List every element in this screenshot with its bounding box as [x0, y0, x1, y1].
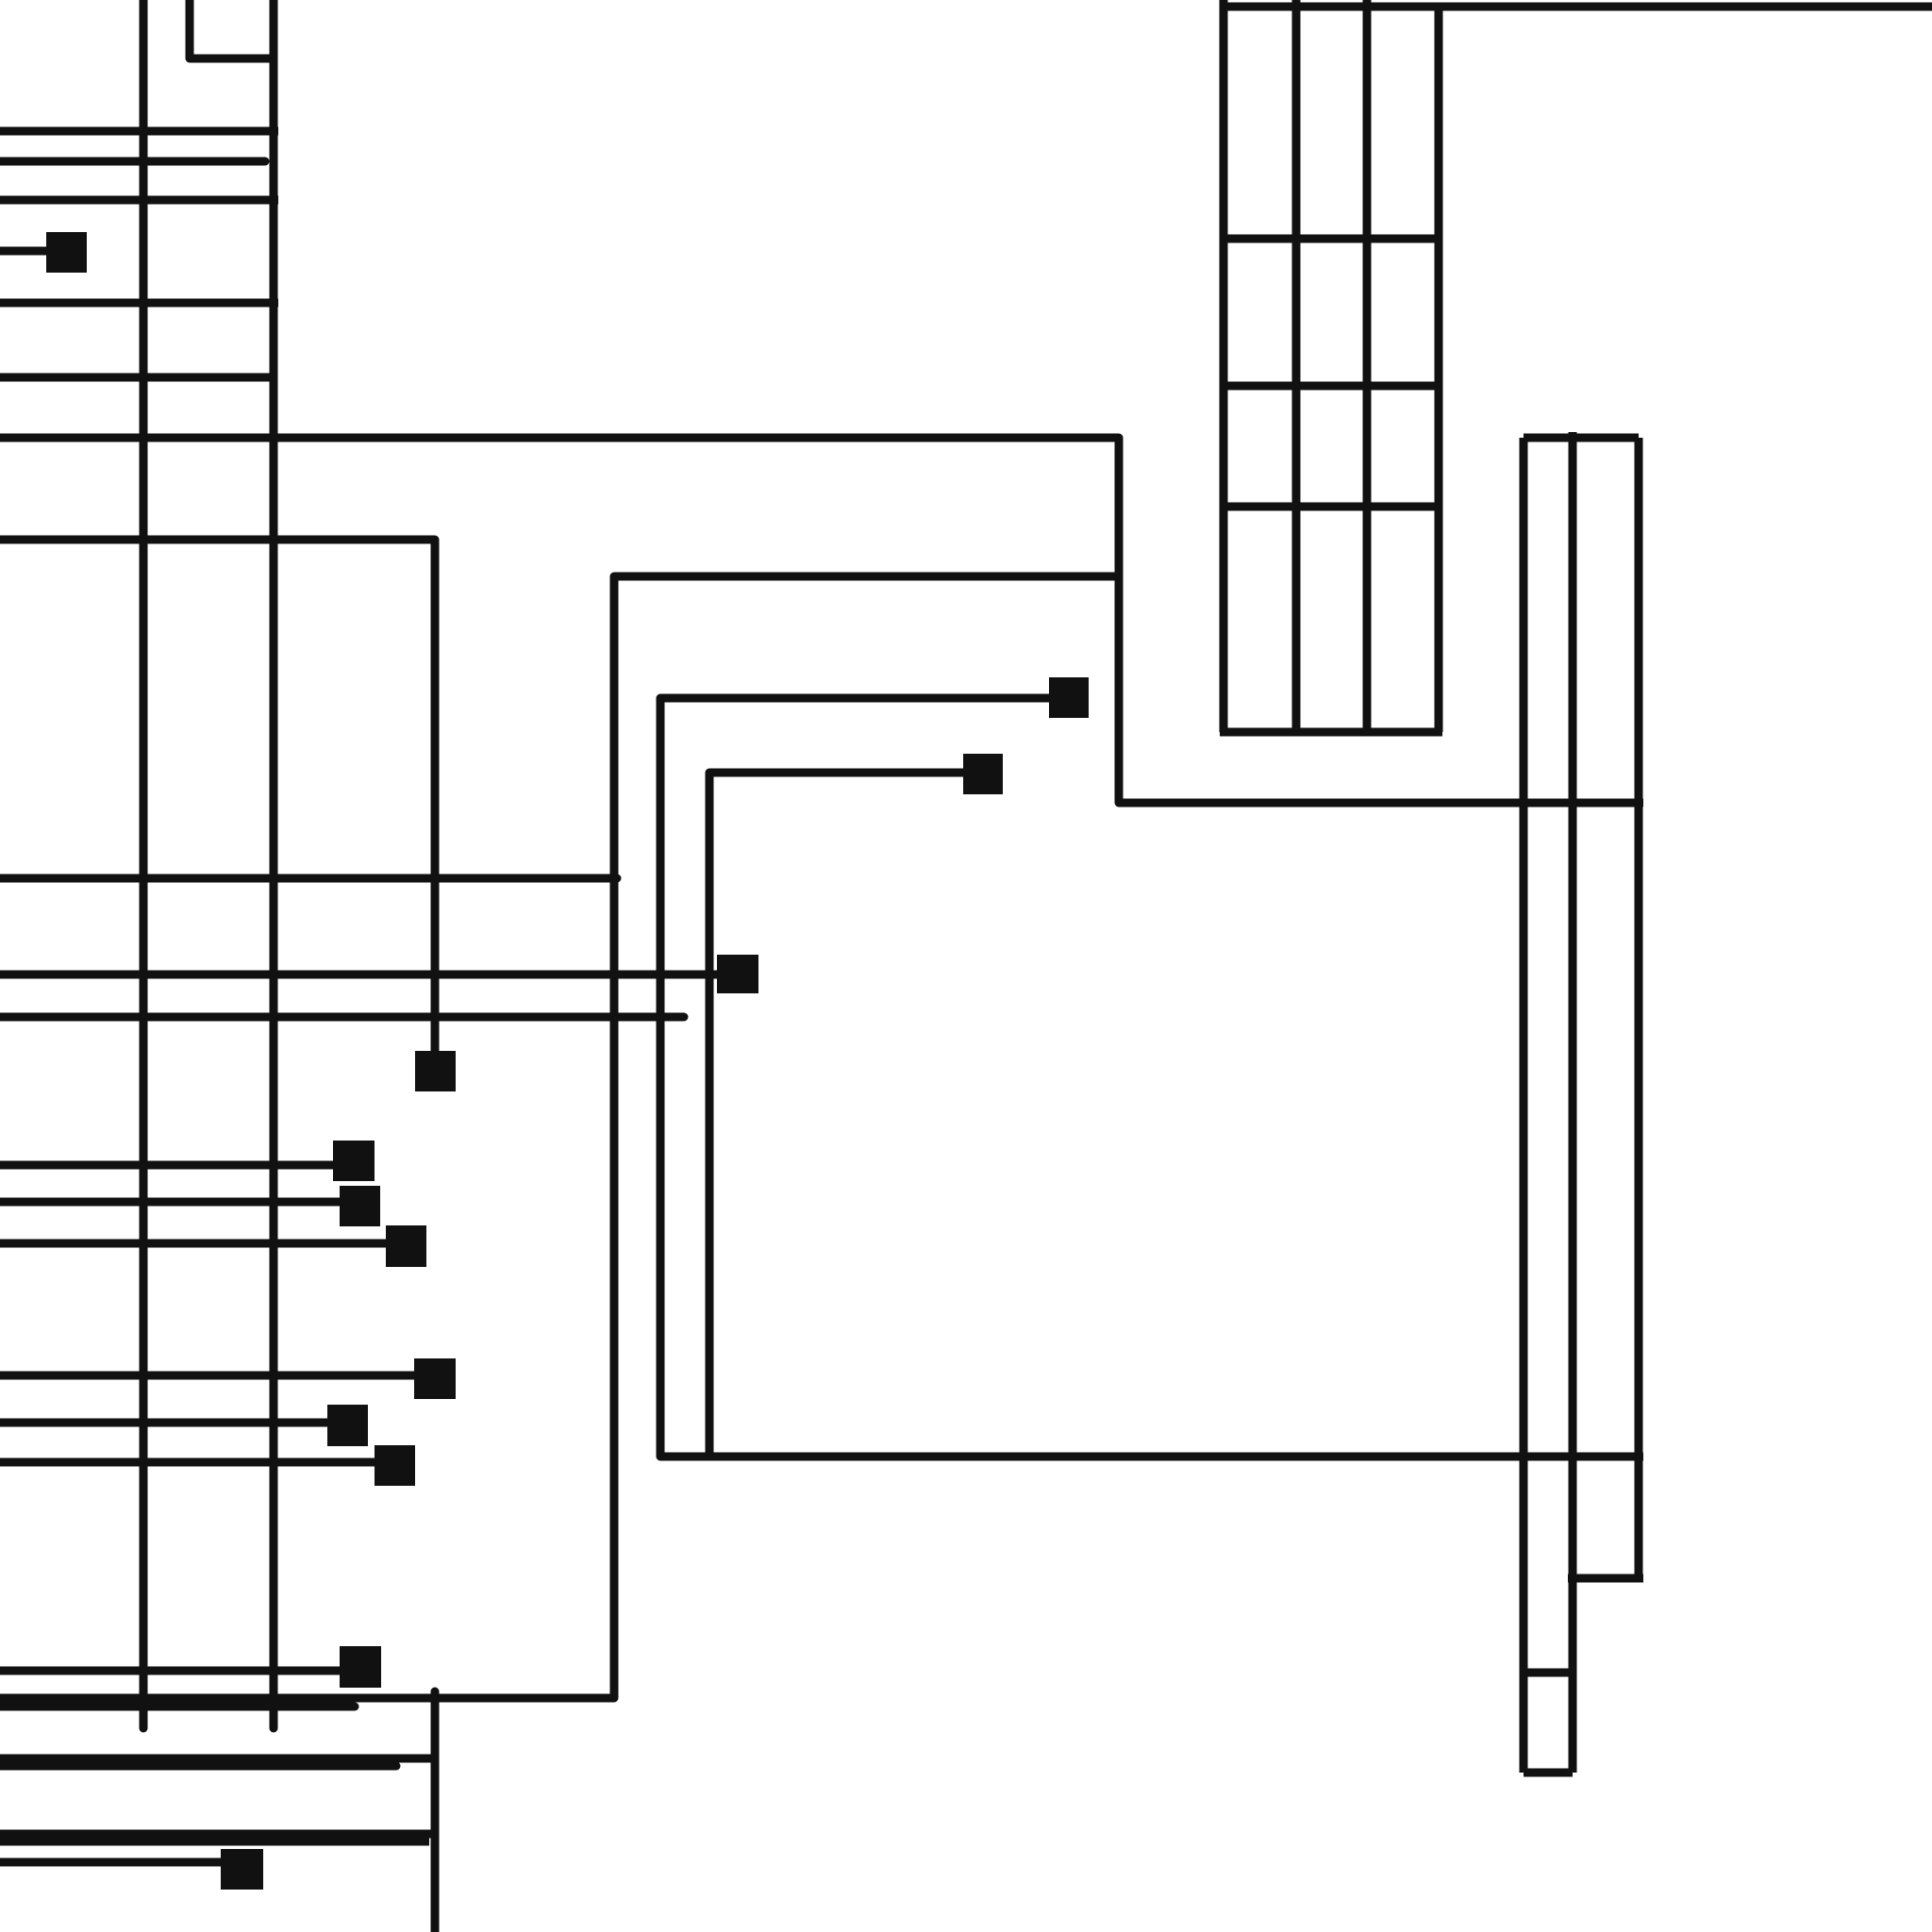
junction pad S8	[414, 1358, 456, 1399]
junction pad S11	[340, 1646, 381, 1688]
wire vertical V15	[1635, 438, 1643, 1579]
wire H19 to pad S5	[0, 1161, 338, 1170]
wire H12	[614, 573, 1119, 581]
wire H22 to pad S8	[0, 1372, 419, 1380]
wire ladder rung R4	[1220, 503, 1442, 511]
junction pad S1	[46, 232, 87, 273]
wire ladder vertical LV1	[1220, 0, 1228, 732]
wire H17 to pad S4	[0, 971, 722, 979]
wire ladder vertical LV2	[1292, 0, 1301, 732]
wire H27 to pad S11	[0, 1667, 344, 1675]
wire H28	[1520, 1669, 1576, 1677]
wire H26	[1568, 1574, 1643, 1583]
wire net H11-V4	[0, 540, 435, 1055]
wire H32 to pad S12	[0, 1858, 226, 1867]
wire net V5-H29	[0, 576, 1119, 1698]
wire H7	[0, 299, 278, 308]
junction pad S5	[333, 1141, 375, 1181]
wire H21 to pad S7	[0, 1240, 391, 1248]
junction pad S3	[963, 754, 1003, 794]
wire ladder rung R2	[1220, 235, 1442, 243]
wire H5	[0, 196, 278, 205]
wire H18	[0, 1013, 684, 1022]
junction pad S4	[717, 955, 758, 993]
wire net H9-V8-H15	[0, 438, 1643, 803]
wire H3	[0, 127, 278, 136]
junction pad S13	[415, 1051, 456, 1091]
junction pad S6	[340, 1186, 380, 1226]
junction pad S10	[375, 1445, 415, 1486]
wire vertical V1	[140, 0, 148, 1728]
wire ladder vertical LV3	[1363, 0, 1372, 732]
wire vertical V16	[431, 1691, 440, 1932]
wire H10 right structure top	[1524, 434, 1639, 442]
wire H23 to pad S9	[0, 1419, 332, 1427]
junction pad S2	[1049, 677, 1089, 718]
wire H31b	[0, 1762, 396, 1771]
wire vertical V3	[270, 0, 278, 1728]
wire H25 to pad S10	[0, 1458, 379, 1467]
wire H33	[0, 1830, 435, 1839]
wire vertical V13	[1520, 438, 1528, 1773]
wire net H13-V6-H24	[660, 698, 1643, 1457]
wire H1 top bus	[1220, 3, 1932, 11]
wire ladder rung R3	[1220, 382, 1442, 391]
wire H8	[0, 374, 274, 382]
junction pad S12	[221, 1849, 263, 1890]
wire vertical V14	[1569, 432, 1577, 1773]
wire cup bottom	[1524, 1769, 1573, 1777]
wire H20 to pad S6	[0, 1198, 344, 1207]
wire H6 stub to pad S1	[0, 247, 52, 256]
wire H4	[0, 158, 265, 166]
junction pad S9	[327, 1405, 368, 1446]
wire H16	[0, 874, 617, 883]
wire net H14-V7	[709, 773, 967, 1457]
wire ladder rung R5 bottom	[1220, 728, 1442, 737]
wire ladder vertical LV4	[1435, 5, 1443, 732]
junction pad S7	[386, 1225, 426, 1267]
wire H33b	[0, 1838, 429, 1846]
wire V2 with corner to H2	[190, 0, 275, 58]
wire H30	[0, 1703, 355, 1711]
wire H31	[0, 1755, 435, 1763]
